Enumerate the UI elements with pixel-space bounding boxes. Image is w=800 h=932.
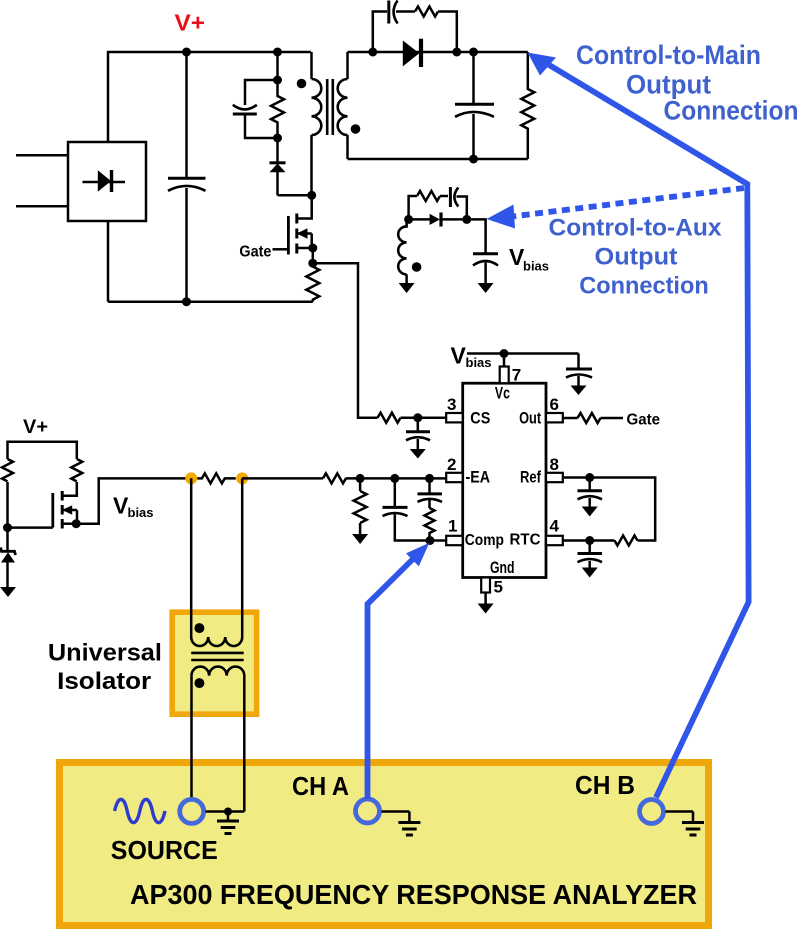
AC input line 2 <box>16 205 68 208</box>
pin name Ref <box>520 469 541 487</box>
pin name Comp <box>465 532 504 549</box>
isolator secondary winding <box>192 667 245 676</box>
pin number 1 <box>448 517 457 536</box>
pin 4 stub <box>546 536 563 545</box>
wire secondary bottom lead <box>346 135 349 159</box>
RTC cap ground <box>582 568 598 578</box>
transformer T1 primary lead <box>310 52 313 79</box>
aux winding <box>398 219 406 274</box>
svg-text:bias: bias <box>128 505 154 520</box>
svg-text:Output: Output <box>595 244 678 271</box>
wire secondary top lead <box>346 52 349 79</box>
node Comp <box>426 536 435 545</box>
isolator primary dot <box>194 623 204 633</box>
pin 8 stub <box>546 473 563 482</box>
label Connection (main) <box>664 96 799 126</box>
CS filter capacitor <box>406 418 430 449</box>
transformer T1 secondary phasing dot <box>351 124 361 134</box>
AC input line 1 <box>16 154 68 157</box>
injection node A (orange) <box>185 472 197 484</box>
wire SOURCE terminal to ground <box>206 810 245 813</box>
compensation capacitor C_p <box>383 478 431 540</box>
pin number 7 <box>512 366 521 385</box>
svg-text:Comp: Comp <box>465 532 504 549</box>
label Connection (aux) <box>579 273 709 300</box>
node clamp top <box>273 76 282 85</box>
svg-text:Ref: Ref <box>520 469 541 487</box>
transformer T1 primary winding <box>312 79 322 135</box>
pin number 6 <box>550 395 559 414</box>
injection resistor <box>197 473 236 483</box>
divider resistor ground <box>352 534 368 544</box>
Ref cap ground <box>582 507 598 517</box>
svg-text:Gnd: Gnd <box>490 559 515 577</box>
wire R_b to MOSFET drain <box>63 482 77 496</box>
divider resistor to ground <box>354 478 367 534</box>
wire primary winding to drain node <box>310 135 313 195</box>
bulk capacitor C1 <box>168 52 206 302</box>
svg-text:6: 6 <box>550 395 559 414</box>
node Ref cap <box>585 473 594 482</box>
label Isolator <box>57 668 151 695</box>
op-amp U1 control IC body <box>463 383 546 577</box>
Universal Isolator box <box>172 612 256 714</box>
wire gate node to Q2 gate <box>8 526 53 529</box>
label CH B <box>575 770 635 800</box>
node aux left <box>404 215 413 224</box>
wire aux node to Vbias cap <box>467 219 486 253</box>
wire CH A probe line (blue) <box>368 559 414 800</box>
node output cap bottom <box>469 155 478 164</box>
node CS <box>413 413 422 422</box>
output snubber capacitor <box>389 1 398 24</box>
wire snubber cap to resistor <box>396 10 415 13</box>
svg-text:Isolator: Isolator <box>57 668 151 695</box>
svg-text:2: 2 <box>447 455 456 474</box>
dashed aux probe line (blue) <box>512 188 744 217</box>
aux Vbias capacitor <box>473 254 498 283</box>
wire bridge bottom <box>107 221 110 302</box>
svg-text:AP300 FREQUENCY RESPONSE ANALY: AP300 FREQUENCY RESPONSE ANALYZER <box>130 879 697 910</box>
wire injection A down to isolator <box>190 478 193 637</box>
node MOSFET source <box>308 244 317 253</box>
startup MOSFET Q2 <box>53 491 77 529</box>
isolator primary winding <box>191 637 242 646</box>
RTC timing resistor <box>614 536 637 546</box>
wire Ref pin <box>563 478 655 541</box>
svg-text:Control-to-Main: Control-to-Main <box>576 40 761 70</box>
wire bridge top to V+ bus <box>108 52 187 142</box>
aux snubber branch <box>409 196 417 219</box>
pin name RTC <box>510 532 541 549</box>
pin number 3 <box>447 395 456 414</box>
svg-text:4: 4 <box>550 517 560 536</box>
transformer T1 core <box>327 79 333 135</box>
load resistor R_load <box>521 52 534 159</box>
svg-text:Out: Out <box>519 409 541 427</box>
pin 6 stub <box>546 413 563 422</box>
wire to Gate label <box>601 417 624 420</box>
label Control-to-Aux <box>549 215 723 242</box>
label Output (main) <box>626 70 711 100</box>
pin number 5 <box>494 578 503 597</box>
svg-text:CH A: CH A <box>292 771 349 801</box>
aux snubber capacitor <box>440 187 467 219</box>
wire injection B down to isolator <box>241 478 244 637</box>
pin name Gnd <box>490 559 515 577</box>
wire isolator to source ground <box>243 676 246 812</box>
aux winding ground <box>399 274 415 293</box>
AP300 analyzer box <box>60 763 709 926</box>
wire isolator to SOURCE terminal <box>190 676 193 798</box>
node startup gate <box>3 523 12 532</box>
svg-text:5: 5 <box>494 578 503 597</box>
label V+ (startup) <box>23 416 48 438</box>
power MOSFET Q1 <box>288 214 312 255</box>
output bottom wire <box>348 158 528 161</box>
aux cap ground <box>478 283 494 293</box>
ground return bus wire <box>108 300 313 303</box>
isolator secondary dot <box>194 678 204 688</box>
wire CS resistor to pin3 <box>401 416 447 419</box>
bridge rectifier <box>68 142 146 221</box>
transformer T1 primary phasing dot <box>297 79 307 89</box>
SOURCE terminal circle <box>180 799 204 823</box>
svg-text:bias: bias <box>523 259 549 274</box>
svg-text:V+: V+ <box>175 10 206 36</box>
wire zener branch <box>6 528 9 551</box>
wire CH B probe line (blue) <box>545 63 749 798</box>
pin 5 ground wire <box>484 593 487 604</box>
V+ bus wire <box>187 51 311 54</box>
gate resistor <box>578 413 601 423</box>
node comp cap branch <box>390 474 399 483</box>
wire R_a to gate node <box>6 482 9 528</box>
Ref bypass capacitor <box>578 478 603 507</box>
node CS tap <box>308 259 317 268</box>
zener ground <box>0 587 16 597</box>
node clamp bottom <box>273 134 282 143</box>
pin 5 ground <box>478 604 494 614</box>
node source ground <box>224 808 232 816</box>
svg-text:V+: V+ <box>23 416 48 438</box>
wire to -EA pin <box>346 477 447 480</box>
pin name Out <box>519 409 541 427</box>
label SOURCE <box>111 835 218 865</box>
zener diode Z1 <box>1 548 16 588</box>
wire CS tap to CS filter <box>313 263 378 418</box>
svg-text:-EA: -EA <box>466 469 491 487</box>
injection node B (orange) <box>236 472 248 484</box>
wire drain node to MOSFET drain <box>297 195 312 218</box>
node snubber right <box>452 48 461 57</box>
pin 7 stub <box>500 367 509 384</box>
wire injection to divider <box>242 477 323 480</box>
startup top wire <box>8 442 77 459</box>
CH A terminal circle <box>356 799 380 823</box>
label CH A <box>292 771 349 801</box>
label AP300 FREQUENCY RESPONSE ANALYZER <box>130 879 697 910</box>
label Vbias (left) <box>113 493 154 520</box>
clamp diode D2 <box>270 138 286 195</box>
node V+ bus / clamp branch <box>273 48 282 57</box>
output snubber resistor <box>415 7 438 17</box>
pin name Vc <box>495 384 510 402</box>
wire Out pin <box>563 417 578 420</box>
label Output (aux) <box>595 244 678 271</box>
current sense resistor R_cs <box>306 263 319 301</box>
pin 1 stub <box>446 536 463 545</box>
label Universal <box>48 640 162 667</box>
wire clamp branch drop <box>276 52 279 80</box>
aux snubber resistor <box>417 191 440 201</box>
CH B terminal circle <box>640 800 664 824</box>
node drain <box>307 191 316 200</box>
label Vbias (aux) <box>509 244 549 274</box>
wire source to CS tap <box>312 248 315 263</box>
pin number 8 <box>550 455 559 474</box>
compensation series capacitor <box>418 478 443 508</box>
RTC timing capacitor <box>578 541 603 568</box>
pin name -EA <box>466 469 491 487</box>
arrowhead control-to-aux <box>487 205 516 229</box>
label Vbias (IC) <box>451 343 492 370</box>
Vbias wire <box>467 352 579 355</box>
node Vbias <box>500 349 509 358</box>
CH B earth ground <box>666 812 705 836</box>
svg-text:Control-to-Aux: Control-to-Aux <box>549 215 723 242</box>
node output cap top <box>469 48 478 57</box>
label V+ (red) <box>175 10 206 36</box>
node series branch top <box>425 474 434 483</box>
startup resistor R_a <box>2 459 13 481</box>
node V+ bus / bulk cap <box>182 48 191 57</box>
CS filter resistor <box>378 413 401 423</box>
wire Comp node to pin1 <box>430 539 446 542</box>
node snubber left <box>368 48 377 57</box>
svg-text:8: 8 <box>550 455 559 474</box>
aux winding phasing dot <box>412 262 422 272</box>
pin 2 stub <box>446 473 463 482</box>
wire clamp cap to node <box>245 114 278 138</box>
wire RTC resistor to pin4 <box>563 539 615 542</box>
svg-text:RTC: RTC <box>510 532 541 549</box>
pin number 2 <box>447 455 456 474</box>
svg-text:Connection: Connection <box>579 273 709 300</box>
feedback series resistor <box>323 473 346 483</box>
svg-text:Connection: Connection <box>664 96 799 126</box>
compensation series resistor <box>425 508 435 541</box>
wire Vbias to pin7 <box>503 354 506 367</box>
isolator core <box>191 653 244 660</box>
pin name CS <box>470 409 490 427</box>
pin 5 stub <box>481 578 490 593</box>
pin 3 stub <box>446 413 463 422</box>
aux rectifier diode <box>409 213 467 227</box>
node RTC cap <box>585 536 594 545</box>
output rectifier diode D1 <box>403 39 421 67</box>
node aux right <box>462 215 471 224</box>
secondary top wire <box>348 51 528 54</box>
svg-text:CH B: CH B <box>575 770 635 800</box>
svg-text:Gate: Gate <box>239 243 271 260</box>
svg-text:1: 1 <box>448 517 457 536</box>
wire clamp cap branch <box>245 80 278 105</box>
Vc bypass capacitor <box>566 354 592 386</box>
output snubber branch left <box>373 12 387 53</box>
wire Q2 source to Vbias line <box>76 478 191 523</box>
arrowhead CH A probe <box>406 543 429 566</box>
wire snubber right <box>438 12 457 53</box>
svg-text:CS: CS <box>470 409 490 427</box>
SOURCE sine symbol <box>115 799 165 822</box>
label Gate (right) <box>627 411 661 428</box>
node Q2 source <box>72 519 81 528</box>
svg-text:Gate: Gate <box>627 411 661 428</box>
svg-text:7: 7 <box>512 366 521 385</box>
Vc cap ground <box>571 386 587 396</box>
output capacitor C2 <box>455 52 494 159</box>
svg-text:bias: bias <box>466 355 492 370</box>
node divider <box>356 474 365 483</box>
svg-text:V: V <box>451 343 467 369</box>
svg-text:Vc: Vc <box>495 384 510 402</box>
label Gate (power MOSFET) <box>239 243 271 260</box>
label Control-to-Main <box>576 40 761 70</box>
pin number 4 <box>550 517 560 536</box>
CS cap ground <box>410 449 426 459</box>
svg-text:Universal: Universal <box>48 640 162 667</box>
svg-text:3: 3 <box>447 395 456 414</box>
arrowhead control-to-main <box>528 53 557 76</box>
source earth ground <box>217 812 239 834</box>
svg-text:SOURCE: SOURCE <box>111 835 218 865</box>
startup resistor R_b <box>71 459 82 481</box>
clamp capacitor <box>233 105 257 114</box>
CH A earth ground <box>382 812 421 836</box>
wire gate lead <box>273 248 289 251</box>
node ground bus / bulk cap <box>182 297 191 306</box>
transformer T1 secondary winding <box>338 79 348 135</box>
clamp resistor <box>271 80 284 138</box>
wire clamp to drain node <box>278 194 312 197</box>
